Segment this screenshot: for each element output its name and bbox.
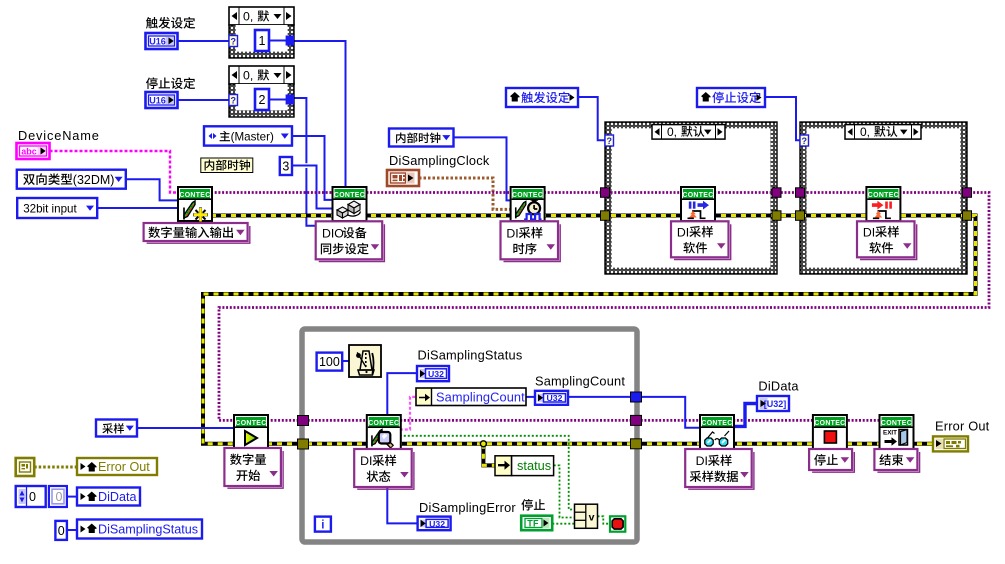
svg-text:(Master): (Master) — [231, 131, 274, 144]
wire case2 out to node U2 — [294, 98, 306, 163]
wire constant 0 to local DiSamplingStatus — [67, 529, 77, 531]
wire device handle (purple) top row and feedback — [211, 193, 989, 421]
svg-text:EXIT: EXIT — [883, 430, 897, 437]
case3 left tunnel (error) — [601, 211, 610, 221]
svg-text:0,: 0, — [243, 69, 253, 83]
case structure 3 (trigger setting) — [605, 122, 777, 274]
case4 right tunnel (device) — [963, 188, 972, 198]
case structure 2 selector terminal ? — [229, 95, 238, 106]
svg-text:2: 2 — [259, 93, 266, 107]
svg-text:1: 1 — [259, 34, 266, 48]
boolean constant 停止 TF — [521, 516, 552, 531]
svg-text:?: ? — [230, 96, 236, 106]
node U10 CONTEC 结束 (exit) — [880, 415, 914, 449]
svg-text:TF: TF — [527, 519, 539, 529]
wire OR gate to loop condition — [598, 516, 611, 523]
ring constant 32bit input — [17, 198, 97, 218]
local variable Error Out — [77, 458, 157, 475]
svg-text:DI: DI — [360, 454, 372, 468]
compound arithmetic OR gate — [575, 504, 598, 528]
junction error wire — [480, 441, 486, 447]
control DeviceName string — [17, 143, 50, 159]
wire U16 stop to case2 — [176, 99, 229, 101]
wire local 停止设定 to case4 selector — [765, 97, 800, 140]
svg-text:0: 0 — [56, 490, 63, 504]
case structure 1 selector terminal ? — [229, 36, 238, 47]
ring constant 双向类型(32DM) — [17, 170, 126, 189]
local variable DiData — [77, 488, 140, 506]
svg-text:CONTEC: CONTEC — [512, 192, 543, 199]
node U6 CONTEC DI采样状态 — [367, 415, 401, 449]
svg-text:CONTEC: CONTEC — [682, 192, 713, 199]
svg-text:v: v — [589, 512, 595, 524]
svg-text:DIO: DIO — [322, 226, 344, 240]
svg-text:U16: U16 — [149, 96, 166, 106]
label 触发设定 — [146, 17, 195, 29]
selector label DI采样状态 — [357, 452, 414, 489]
wire ring 双向类型 to node U1 — [126, 179, 179, 200]
svg-text:?: ? — [606, 136, 612, 146]
svg-text:CONTEC: CONTEC — [334, 192, 365, 199]
svg-text:(32DM): (32DM) — [73, 173, 115, 187]
case4 left tunnel (device) — [796, 188, 805, 198]
local variable 停止设定 — [697, 88, 765, 107]
unbundle by name status — [495, 456, 512, 476]
svg-text:CONTEC: CONTEC — [179, 192, 210, 199]
error in constant — [16, 458, 35, 476]
svg-text:0,: 0, — [667, 125, 677, 139]
svg-text:32bit input: 32bit input — [23, 203, 77, 216]
numeric constant 3 — [280, 157, 292, 175]
svg-text:CONTEC: CONTEC — [701, 420, 732, 427]
wire DeviceName string to node U1 — [50, 151, 180, 193]
selector label 数字量输入输出 — [147, 226, 250, 243]
svg-text:CONTEC: CONTEC — [868, 192, 899, 199]
node U2 CONTEC DIO设备同步设定 — [333, 187, 367, 221]
node U4 CONTEC DI采样软件 (trigger) — [681, 187, 715, 221]
case structure 2 — [229, 66, 294, 84]
loop left tunnel (device) — [298, 416, 309, 426]
case structure 1 numeric constant 1 — [255, 30, 269, 51]
node U3 CONTEC DI采样时序 — [511, 187, 545, 221]
svg-text:[U32]: [U32] — [764, 399, 787, 409]
case4 right tunnel (error) — [963, 211, 972, 221]
numeric constant 100 — [317, 353, 343, 371]
label 停止设定 — [146, 77, 195, 89]
case3 selector band 0 默认 — [652, 125, 725, 140]
case4 left tunnel (error) — [796, 211, 805, 221]
wire node U6 to DiSamplingError indicator — [387, 448, 417, 523]
indicator Error Out cluster — [933, 436, 968, 451]
selector label 数字量开始 — [227, 451, 283, 488]
loop condition terminal (stop sign) — [610, 516, 625, 531]
wire constant to tunnel — [269, 99, 286, 101]
wire TF 停止 to OR gate — [552, 523, 574, 525]
loop right tunnel (error) — [631, 439, 642, 449]
wire constant 100 to wait node — [342, 360, 349, 362]
wire constant 3 to node U2 — [292, 166, 334, 209]
wire error cluster top row and feedback — [203, 216, 976, 444]
node U9 CONTEC 停止 (stop sampling) — [813, 415, 847, 449]
case4 selector band 0 默认 — [845, 125, 921, 140]
wire node U8 array data to DiData indicator — [733, 404, 757, 427]
case3 right tunnel (error) — [772, 211, 781, 221]
svg-text:DiSamplingStatus: DiSamplingStatus — [98, 522, 198, 536]
svg-text:i: i — [321, 520, 324, 532]
control DiSamplingClock cluster — [387, 170, 419, 186]
svg-text:DeviceName: DeviceName — [18, 128, 100, 143]
svg-text:CONTEC: CONTEC — [235, 420, 266, 427]
control 触发设定 U16 — [146, 33, 178, 49]
wire ring 内部时钟 to node U3 — [453, 137, 511, 200]
svg-text:DiSamplingStatus: DiSamplingStatus — [418, 348, 523, 363]
svg-text:DiSamplingClock: DiSamplingClock — [389, 153, 490, 168]
svg-text:SamplingCount: SamplingCount — [535, 374, 625, 389]
svg-text:Error Out: Error Out — [98, 460, 150, 474]
wire SamplingCount local to U32 indicator — [526, 396, 535, 398]
svg-text:100: 100 — [319, 355, 340, 369]
wire array constant to local DiData — [67, 496, 77, 498]
case3 right tunnel (device) — [772, 188, 781, 198]
ring constant 主(Master) — [204, 126, 292, 145]
svg-text:U32: U32 — [547, 393, 563, 403]
while loop — [302, 329, 637, 542]
wire ring 采样 to node U7 — [137, 427, 235, 429]
svg-text:?: ? — [230, 37, 236, 47]
wire U16 trigger to case1 — [176, 40, 229, 42]
node U1 CONTEC 数字量输入输出 (init) — [178, 187, 212, 221]
svg-text:DiData: DiData — [758, 379, 799, 394]
wire node U6 to DiSamplingStatus indicator — [387, 373, 417, 416]
wire ring 32bit input to node U1 — [97, 207, 179, 209]
loop right tunnel (SamplingCount) — [631, 392, 642, 402]
svg-text:status: status — [517, 458, 551, 473]
svg-text:abc: abc — [21, 147, 37, 157]
svg-text:0,: 0, — [243, 10, 253, 24]
svg-text:U32: U32 — [428, 369, 444, 379]
wire error cluster bottom row — [267, 442, 933, 446]
case structure 1 — [229, 7, 294, 25]
case structure 1 output tunnel — [286, 36, 294, 46]
ring constant 采样 — [96, 420, 137, 437]
loop iteration terminal i — [315, 517, 331, 532]
svg-text:DiSamplingError: DiSamplingError — [419, 500, 516, 515]
case3 selector terminal ? — [605, 135, 614, 146]
svg-text:DI: DI — [863, 225, 875, 239]
wire SamplingCount to loop tunnel and node U8 — [568, 397, 701, 428]
indicator DiSamplingError U32 — [418, 517, 451, 531]
numeric constant 0 — [55, 521, 67, 540]
control 停止设定 U16 — [146, 92, 178, 108]
wire case1 out to node U2 top — [294, 41, 346, 187]
indicator DiData U32 array — [757, 396, 789, 411]
svg-text:CONTEC: CONTEC — [881, 420, 912, 427]
svg-text:DI: DI — [506, 226, 518, 240]
case3 left tunnel (device) — [601, 188, 610, 198]
local variable 触发设定 — [506, 88, 578, 107]
selector label DI采样时序 — [504, 224, 561, 261]
svg-text:0,: 0, — [860, 125, 870, 139]
svg-text:Error Out: Error Out — [935, 419, 990, 434]
label 停止 (TF button) — [521, 499, 545, 510]
wire ring 主(Master) to node U2 — [292, 136, 334, 200]
loop left tunnel (error) — [298, 439, 309, 449]
selector label 停止 — [812, 452, 854, 472]
wire node U6 boolean to OR gate — [400, 436, 575, 510]
ring constant 内部时钟 (clock source) — [389, 129, 454, 147]
indicator SamplingCount U32 — [535, 391, 568, 405]
case structure 4 (stop setting) — [800, 122, 967, 274]
selector label DI采样采样数据 — [688, 452, 754, 489]
wait (ms) metronome node — [349, 345, 381, 377]
svg-text:U32: U32 — [429, 519, 445, 529]
wire DiSamplingClock cluster to node U3 — [419, 178, 512, 209]
wire error branch to unbundle status — [483, 444, 495, 466]
case structure 2 output tunnel — [286, 95, 294, 105]
node U5 CONTEC DI采样软件 (stop) — [866, 187, 900, 221]
svg-text:DI: DI — [677, 225, 689, 239]
node U8 CONTEC DI采样采集数据 — [700, 415, 734, 449]
svg-text:SamplingCount: SamplingCount — [436, 390, 525, 405]
svg-text:0: 0 — [58, 524, 65, 538]
svg-text:0: 0 — [29, 490, 36, 504]
wire local 触发设定 to case3 selector — [578, 97, 605, 140]
svg-text:3: 3 — [282, 160, 289, 174]
wire constant to tunnel — [269, 40, 286, 42]
svg-text:CONTEC: CONTEC — [814, 420, 845, 427]
selector label DI采样软件 (trigger) — [674, 224, 731, 259]
case structure 2 numeric constant 2 — [255, 89, 269, 110]
selector label DIO设备同步设定 — [319, 224, 385, 261]
wire node U6 to SamplingCount local (pink) — [400, 397, 416, 430]
selector label 结束 — [877, 452, 919, 472]
svg-text:CONTEC: CONTEC — [368, 420, 399, 427]
svg-text:DI: DI — [696, 454, 708, 468]
indicator DiSamplingStatus U32 — [417, 366, 449, 381]
array constant 0 (empty U32 array) — [16, 486, 46, 507]
selector label DI采样软件 (stop) — [860, 224, 917, 259]
wire device handle bottom row — [267, 419, 881, 422]
svg-text:U16: U16 — [149, 37, 166, 47]
wire error constant to local Error Out — [34, 466, 77, 469]
local variable write SamplingCount — [416, 388, 526, 406]
node U7 CONTEC 数字量开始 (start) — [234, 415, 268, 449]
local variable DiSamplingStatus — [77, 520, 202, 539]
wire unbundle status to OR gate — [554, 465, 575, 517]
svg-text:?: ? — [801, 136, 807, 146]
svg-text:DiData: DiData — [98, 490, 137, 504]
case4 selector terminal ? — [800, 135, 809, 146]
free label 内部时钟 — [201, 158, 253, 173]
loop right tunnel (device) — [631, 415, 642, 425]
